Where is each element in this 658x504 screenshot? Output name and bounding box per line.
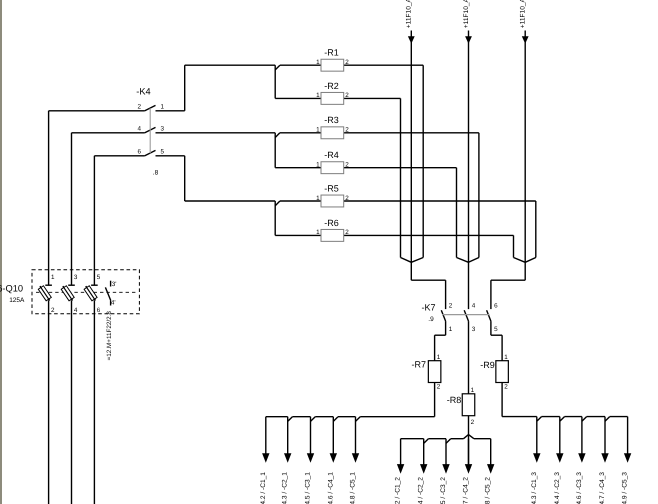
svg-text:5: 5 xyxy=(494,326,498,333)
svg-text:/4.5 / -C3_2: /4.5 / -C3_2 xyxy=(440,477,447,504)
svg-text:-R6: -R6 xyxy=(324,218,339,228)
svg-text:2: 2 xyxy=(51,307,55,314)
svg-text:3: 3 xyxy=(472,326,476,333)
svg-text:/4.4 / -C2_3: /4.4 / -C2_3 xyxy=(554,472,561,504)
svg-text:-K4: -K4 xyxy=(136,87,150,97)
svg-text:+11F10_A1: +11F10_A1 xyxy=(463,0,470,28)
svg-text:/4.2 / -C1_2: /4.2 / -C1_2 xyxy=(395,477,402,504)
svg-text:2: 2 xyxy=(345,195,349,202)
svg-text:1: 1 xyxy=(316,162,320,169)
svg-text:4': 4' xyxy=(111,300,116,307)
svg-text:1: 1 xyxy=(316,195,320,202)
svg-text:/4.2 / -C1_1: /4.2 / -C1_1 xyxy=(260,472,267,504)
svg-text:4: 4 xyxy=(472,302,476,309)
svg-text:1: 1 xyxy=(316,92,320,99)
svg-text:1: 1 xyxy=(437,354,441,361)
svg-text:3: 3 xyxy=(74,274,78,281)
svg-text:.9: .9 xyxy=(428,316,434,323)
svg-text:5: 5 xyxy=(161,148,165,155)
svg-text:1: 1 xyxy=(471,387,475,394)
svg-text:-R3: -R3 xyxy=(324,115,339,125)
svg-text:-R5: -R5 xyxy=(324,183,339,193)
svg-text:6: 6 xyxy=(137,148,141,155)
svg-text:6-Q10: 6-Q10 xyxy=(0,283,23,293)
svg-text:=12.M+11F22/2.8: =12.M+11F22/2.8 xyxy=(106,311,113,361)
svg-text:/4.5 / -C3_1: /4.5 / -C3_1 xyxy=(305,472,312,504)
svg-text:/4.6 / -C3_3: /4.6 / -C3_3 xyxy=(576,472,583,504)
svg-text:2: 2 xyxy=(345,162,349,169)
svg-text:-R2: -R2 xyxy=(324,81,339,91)
svg-text:/4.7 / -C4_2: /4.7 / -C4_2 xyxy=(463,477,470,504)
svg-text:2: 2 xyxy=(137,103,141,110)
svg-text:2: 2 xyxy=(504,384,508,391)
svg-text:+11F10_A1: +11F10_A1 xyxy=(406,0,413,28)
svg-text:1: 1 xyxy=(449,326,453,333)
svg-text:1: 1 xyxy=(316,59,320,66)
svg-text:/4.3 / -C1_3: /4.3 / -C1_3 xyxy=(531,472,538,504)
svg-text:/4.4 / -C2_2: /4.4 / -C2_2 xyxy=(418,477,425,504)
svg-text:2: 2 xyxy=(471,419,475,426)
svg-text:2: 2 xyxy=(345,127,349,134)
svg-text:/4.9 / -C5_3: /4.9 / -C5_3 xyxy=(622,472,629,504)
svg-text:6: 6 xyxy=(97,307,101,314)
svg-text:2: 2 xyxy=(345,59,349,66)
svg-text:1: 1 xyxy=(504,354,508,361)
svg-text:1: 1 xyxy=(51,274,55,281)
svg-text:-R8: -R8 xyxy=(447,395,462,405)
svg-text:-R7: -R7 xyxy=(411,359,426,369)
svg-text:1: 1 xyxy=(316,229,320,236)
svg-text:/4.8 / -C5_1: /4.8 / -C5_1 xyxy=(350,472,357,504)
svg-text:2: 2 xyxy=(345,92,349,99)
svg-text:+11F10_A1: +11F10_A1 xyxy=(520,0,527,28)
svg-text:/4.7 / -C4_3: /4.7 / -C4_3 xyxy=(599,472,606,504)
svg-text:3': 3' xyxy=(112,281,117,288)
svg-text:1: 1 xyxy=(316,127,320,134)
svg-text:4: 4 xyxy=(74,307,78,314)
svg-text:125A: 125A xyxy=(9,297,25,304)
svg-text:3: 3 xyxy=(161,125,165,132)
svg-text:4: 4 xyxy=(137,125,141,132)
svg-text:6: 6 xyxy=(494,302,498,309)
svg-text:/4.8 / -C5_2: /4.8 / -C5_2 xyxy=(485,477,492,504)
svg-text:-R9: -R9 xyxy=(480,360,495,370)
svg-text:/4.3 / -C2_1: /4.3 / -C2_1 xyxy=(282,472,289,504)
svg-text:1: 1 xyxy=(161,103,165,110)
svg-text:5: 5 xyxy=(97,274,101,281)
svg-text:2: 2 xyxy=(449,302,453,309)
svg-text:/4.6 / -C4_1: /4.6 / -C4_1 xyxy=(327,472,334,504)
svg-text:-R1: -R1 xyxy=(324,48,339,58)
svg-text:.8: .8 xyxy=(153,169,159,176)
svg-text:-K7: -K7 xyxy=(421,303,435,313)
svg-text:2: 2 xyxy=(437,384,441,391)
svg-text:-R4: -R4 xyxy=(324,150,339,160)
svg-text:2: 2 xyxy=(345,229,349,236)
